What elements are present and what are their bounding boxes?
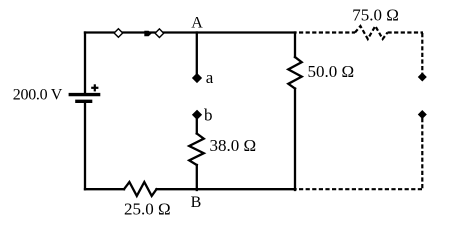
wire branch A to a [196, 33, 198, 75]
switch terminal left (open diamond) [114, 29, 123, 38]
right gap top terminal dot [419, 73, 427, 81]
battery 200 V positive plate [69, 93, 101, 96]
battery 200 V negative plate [75, 100, 92, 103]
svg-text:50.0 Ω: 50.0 Ω [308, 62, 355, 81]
switch terminal right (open diamond) [155, 29, 164, 38]
wire top (left loop, solid) [85, 31, 296, 33]
wire dashed top (to 75 ohm) [299, 31, 355, 33]
svg-text:B: B [191, 194, 202, 211]
wire right branch upper [294, 33, 296, 58]
switch arrow (current direction) [144, 31, 151, 36]
svg-text:a: a [206, 68, 214, 87]
node a terminal dot [193, 74, 202, 83]
wire dashed right vertical lower [421, 118, 423, 189]
resistor R 75.0 ohm (dashed) [355, 26, 388, 39]
wire dashed top right [388, 31, 424, 33]
right gap bottom terminal dot [419, 111, 427, 119]
svg-text:A: A [191, 15, 203, 32]
resistor R 38.0 ohm (middle branch) [189, 134, 204, 166]
wire bottom middle (solid) [157, 188, 296, 190]
svg-text:200.0 V: 200.0 V [13, 87, 63, 104]
resistor R 25.0 ohm (bottom) [124, 182, 157, 196]
svg-text:b: b [204, 105, 213, 124]
wire resistor to B [196, 165, 198, 190]
resistor R 50.0 ohm (right branch) [288, 57, 301, 89]
battery plus sign [91, 84, 98, 91]
wire left vertical (below battery) [84, 103, 86, 189]
wire dashed bottom [299, 188, 422, 190]
svg-text:75.0 Ω: 75.0 Ω [352, 6, 399, 25]
svg-text:25.0 Ω: 25.0 Ω [124, 200, 171, 219]
wire right branch lower [294, 89, 296, 191]
wire bottom left (solid, to resistor) [85, 188, 124, 190]
svg-text:38.0 Ω: 38.0 Ω [210, 136, 257, 155]
node b terminal dot [193, 110, 202, 119]
wire b to resistor [196, 119, 198, 134]
wire left vertical (above battery) [84, 33, 86, 94]
wire dashed right vertical upper [421, 33, 423, 74]
